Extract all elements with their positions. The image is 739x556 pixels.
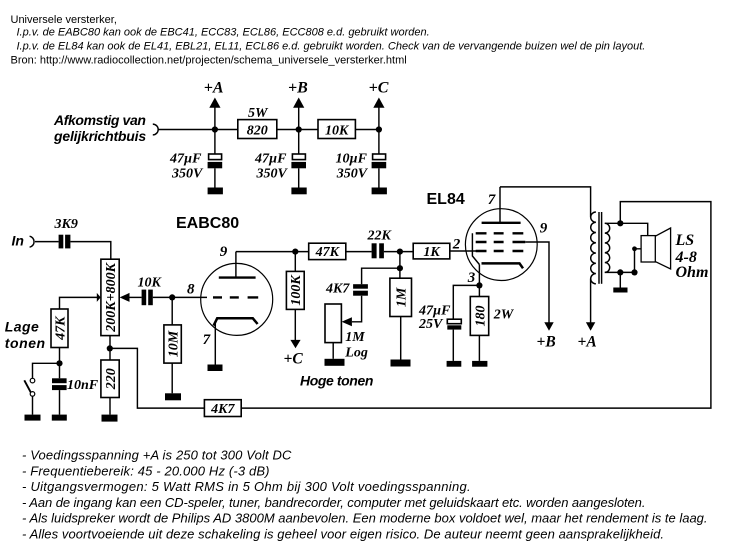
svg-text:Afkomstig van: Afkomstig van — [53, 112, 146, 128]
svg-text:3K9: 3K9 — [54, 217, 78, 232]
svg-text:2: 2 — [452, 236, 461, 252]
svg-text:7: 7 — [488, 192, 496, 208]
speaker LS — [641, 228, 671, 269]
pin 3 lead — [478, 265, 480, 297]
potentiometer 4K7 1M Log — [325, 282, 368, 361]
EABC80 cathode — [214, 318, 258, 325]
svg-text:8: 8 — [187, 281, 195, 297]
pin 7 lead (EL84) — [499, 187, 501, 223]
net +C (down arrow) — [284, 340, 304, 368]
wire switch to ground — [32, 396, 34, 414]
wiper arrow (treble pot) — [342, 317, 352, 326]
ground (EABC80 cathode) — [208, 365, 223, 372]
svg-text:Ohm: Ohm — [676, 264, 709, 281]
svg-text:tonen: tonen — [5, 335, 46, 351]
wire treble branch — [362, 268, 400, 284]
svg-text:350V: 350V — [336, 166, 369, 181]
svg-text:Log: Log — [344, 346, 368, 361]
svg-text:10K: 10K — [138, 275, 163, 290]
svg-text:4K7: 4K7 — [210, 402, 235, 417]
node pot bottom — [107, 345, 113, 351]
wire 22K to 1K — [384, 251, 413, 253]
wire anode to transformer — [500, 187, 591, 217]
node secondary top — [617, 220, 623, 226]
ground (secondary) — [613, 288, 627, 293]
svg-text:- Voedingsspanning +A is 250 t: - Voedingsspanning +A is 250 tot 300 Vol… — [22, 448, 292, 463]
resistor 180 2W — [470, 297, 514, 361]
wire pot bottom to 220 — [109, 336, 111, 360]
transformer secondary — [605, 223, 610, 272]
svg-text:2W: 2W — [493, 307, 515, 322]
svg-text:I.p.v. de EABC80 kan ook de EB: I.p.v. de EABC80 kan ook de EBC41, ECC83… — [17, 26, 430, 38]
svg-text:1M: 1M — [345, 330, 365, 345]
svg-text:9: 9 — [220, 244, 228, 260]
svg-text:47µF: 47µF — [169, 151, 202, 166]
net +B (down arrow) — [537, 322, 556, 350]
capacitor 3K9 — [54, 217, 78, 248]
wire secondary to ground — [619, 272, 621, 287]
net +B (top arrow) — [288, 80, 308, 130]
svg-text:1M: 1M — [395, 287, 410, 307]
resistor 4K7 (feedback) — [204, 400, 241, 417]
ground (treble pot) — [325, 359, 345, 366]
svg-text:+C: +C — [284, 351, 304, 368]
net +A (top arrow) — [204, 80, 224, 130]
svg-text:820: 820 — [247, 123, 268, 138]
svg-text:Lage: Lage — [5, 319, 39, 335]
node anode — [292, 249, 298, 255]
svg-text:+C: +C — [369, 80, 389, 97]
svg-text:LS: LS — [675, 232, 695, 249]
svg-text:+B: +B — [288, 80, 308, 97]
node +A rail — [212, 126, 218, 132]
wire wiper to 47K — [60, 297, 98, 309]
ground (220) — [102, 415, 118, 422]
resistor 1M — [390, 278, 412, 359]
input connector (supply) — [153, 124, 158, 135]
node +B rail — [296, 126, 302, 132]
net +A (down arrow) — [578, 322, 597, 350]
svg-text:- Alles voortvoeiende uit deze: - Alles voortvoeiende uit deze schakelin… — [22, 526, 664, 541]
svg-text:EABC80: EABC80 — [176, 215, 239, 232]
wire cathode to 47uF — [453, 285, 479, 319]
resistor 1K — [413, 243, 450, 260]
EL84 g3-cathode strap — [472, 233, 479, 264]
ground (switch) — [25, 415, 41, 421]
svg-text:220: 220 — [104, 368, 119, 390]
node cathode EL84 — [476, 282, 482, 288]
wire secondary top to speaker — [605, 223, 648, 235]
label LS 4-8 Ohm — [675, 232, 709, 281]
EL84 grid g2 — [476, 241, 526, 243]
svg-text:22K: 22K — [367, 229, 393, 244]
svg-text:Hoge tonen: Hoge tonen — [300, 373, 373, 389]
svg-text:3: 3 — [467, 270, 476, 286]
svg-text:+B: +B — [537, 334, 556, 351]
svg-text:10K: 10K — [325, 123, 350, 138]
svg-text:5W: 5W — [248, 106, 269, 121]
net +C (top arrow) — [369, 80, 389, 130]
label Lage tonen — [5, 319, 46, 351]
svg-text:350V: 350V — [171, 166, 204, 181]
label Afkomstig van gelijkrichtbuis — [53, 112, 146, 144]
wire 10K cap to grid pin 8 — [153, 296, 207, 298]
wire node down — [399, 252, 401, 279]
resistor 47K (anode) — [309, 243, 346, 260]
capacitor 10K — [138, 275, 163, 305]
ground (1M) — [391, 360, 411, 367]
svg-text:1K: 1K — [423, 245, 441, 260]
pentode EL84 envelope — [465, 209, 537, 281]
wire C1 to pot top — [70, 242, 110, 260]
triode EABC80 envelope — [201, 263, 273, 335]
svg-text:200K+800K: 200K+800K — [104, 261, 119, 332]
svg-text:I.p.v. de EL84 kan ook de EL41: I.p.v. de EL84 kan ook de EL41, EBL21, E… — [17, 41, 646, 53]
svg-text:4K7: 4K7 — [325, 282, 350, 297]
svg-text:25V: 25V — [418, 317, 444, 332]
capacitor 22K — [367, 229, 393, 259]
svg-text:350V: 350V — [256, 166, 289, 181]
svg-text:- Als luidspreker wordt de Phi: - Als luidspreker wordt de Philips AD 38… — [22, 511, 708, 526]
ground (cap B) — [291, 188, 306, 195]
node g1 EL84 — [397, 249, 403, 255]
svg-text:180: 180 — [473, 306, 488, 327]
EABC80 anode — [219, 252, 256, 278]
node treble branch — [397, 265, 403, 271]
resistor 220 — [101, 360, 119, 415]
svg-text:47K: 47K — [53, 315, 68, 341]
switch S1 — [24, 378, 35, 396]
svg-text:+A: +A — [578, 334, 597, 351]
wire anode to 47K — [236, 251, 309, 253]
node secondary bottom A — [617, 269, 623, 275]
wire feedback to output — [241, 202, 711, 409]
ground (180) — [472, 361, 487, 367]
svg-text:10nF: 10nF — [67, 378, 99, 393]
svg-text:7: 7 — [203, 332, 211, 348]
node tone — [56, 360, 62, 366]
wire In to C1 — [35, 241, 59, 243]
transformer core — [599, 212, 602, 284]
capacitor 47uF 350V (A) — [169, 130, 222, 188]
EL84 anode — [482, 222, 521, 224]
wire node to switch — [33, 363, 60, 378]
transformer primary — [591, 212, 596, 284]
wire 1K to pin 2 — [450, 250, 476, 252]
node speaker terminal — [632, 246, 637, 251]
resistor 10M — [164, 297, 182, 393]
svg-text:100K: 100K — [289, 274, 304, 306]
resistor 47K (tone) — [51, 309, 68, 348]
resistor 100K — [286, 252, 304, 341]
node secondary bottom B — [631, 269, 637, 275]
ground (10nF) — [52, 415, 67, 421]
capacitor 10uF 350V (C) — [336, 130, 387, 188]
svg-text:10µF: 10µF — [336, 151, 368, 166]
pin 7 lead — [214, 323, 216, 365]
svg-text:- Aan de ingang kan een CD-spe: - Aan de ingang kan een CD-speler, tuner… — [22, 495, 645, 510]
svg-text:+A: +A — [204, 80, 224, 97]
capacitor 47uF 25V — [418, 304, 461, 361]
svg-text:47µF: 47µF — [254, 151, 287, 166]
svg-text:In: In — [12, 233, 24, 249]
ground (47uF 25V) — [447, 361, 462, 367]
capacitor 47uF 350V (B) — [254, 130, 306, 188]
resistor 820 5W — [238, 106, 277, 139]
wire 47K to node — [59, 348, 61, 364]
capacitor 10nF — [52, 363, 99, 414]
svg-text:Universele versterker,: Universele versterker, — [11, 14, 117, 26]
EABC80 grid dashes — [213, 296, 258, 298]
EL84 cathode — [482, 263, 524, 268]
node +C rail — [376, 126, 382, 132]
node grid 8 — [169, 294, 175, 300]
ground (10M) — [165, 393, 181, 400]
wire cap to pot wiper — [352, 296, 362, 322]
capacitor (treble) — [353, 284, 368, 296]
resistor 10K (supply) — [318, 120, 355, 139]
wire 47K to 22K cap — [346, 251, 372, 253]
svg-text:9: 9 — [540, 220, 548, 236]
wire secondary bottom — [605, 271, 635, 273]
svg-text:Bron: http://www.radiocollecti: Bron: http://www.radiocollection.net/pro… — [11, 55, 407, 67]
svg-text:- Uitgangsvermogen: 5 Watt RMS: - Uitgangsvermogen: 5 Watt RMS in 5 Ohm … — [22, 479, 471, 494]
wire primary bottom to +A — [590, 279, 592, 323]
ground (cap A) — [208, 188, 223, 195]
ground (cap C) — [372, 188, 387, 195]
svg-text:47K: 47K — [315, 245, 341, 260]
svg-text:EL84: EL84 — [427, 191, 465, 208]
svg-text:10M: 10M — [167, 330, 182, 357]
wire to speaker low terminal — [635, 249, 642, 273]
EL84 grid g1 — [476, 250, 524, 252]
svg-text:gelijkrichtbuis: gelijkrichtbuis — [53, 128, 146, 144]
EL84 grid g3 — [476, 232, 524, 234]
svg-text:- Frequentiebereik: 45 - 20.00: - Frequentiebereik: 45 - 20.000 Hz (-3 d… — [22, 463, 270, 478]
wire screen to +B — [525, 242, 549, 323]
input connector In — [30, 236, 34, 247]
wire feedback from pot bottom — [110, 348, 205, 408]
wire B+ rail — [158, 129, 379, 131]
potentiometer 200K+800K — [97, 259, 130, 335]
wire wiper to 10K cap — [130, 296, 142, 298]
